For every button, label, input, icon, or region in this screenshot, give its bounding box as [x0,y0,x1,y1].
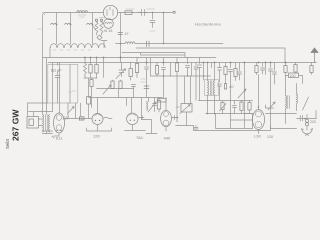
wire x118 [119,89,127,106]
pot arrow [103,85,111,94]
rail y113.5 right [245,114,297,124]
box 100 [289,73,299,78]
resistor R19 [285,63,287,66]
resistor R22 box [88,78,90,97]
resistor R17 box [120,80,122,81]
wire x230 [229,63,233,121]
node dot [285,62,287,64]
tube VA [92,114,103,125]
svg-text:Hochantenne: Hochantenne [195,22,222,27]
tube V4 oval [253,110,265,130]
label V1 [99,17,105,19]
node dot on line A [163,43,165,45]
wire x256 [256,63,258,66]
box R18 [157,101,160,110]
wire drop to line A [163,13,165,44]
svg-text:L30: L30 [254,134,261,139]
svg-text:784: 784 [136,135,143,140]
rail y113 [206,113,253,115]
wire y111 [29,112,53,117]
tube VB [127,113,138,124]
capacitor C20 [261,63,265,75]
wire x181 [176,121,179,123]
resistor hatch [63,117,69,120]
resistor R20 [295,63,297,65]
resistor R3 on top wire [125,11,132,15]
pot P2 box with arrow [185,76,191,104]
wire branch 2 [70,13,72,45]
under tube B [125,116,146,131]
node dot 1 [56,24,58,26]
capacitor C9 [145,58,149,77]
svg-text:40: 40 [229,84,234,89]
wire x50 [49,48,51,58]
wire x42.5 x46.5 [43,58,47,115]
svg-text:130: 130 [267,135,273,139]
ground anchor [302,129,313,136]
capacitor C10 [162,58,166,77]
resistor R13 [241,101,243,103]
resistor R14 [249,101,251,103]
label R3 value [126,8,155,10]
node dot 2 [70,24,72,26]
wire x150 [150,58,152,77]
label W [176,106,180,108]
svg-text:W 18: W 18 [104,29,112,33]
wire tick [93,27,96,30]
resistor R10 box [176,58,178,122]
wire stub C5 [150,13,155,28]
node dots rail [163,75,165,77]
wire x170 [170,63,172,77]
under tube A [87,125,112,132]
trimmer arrow [268,102,275,110]
svg-text:220: 220 [310,120,316,124]
speaker SP [27,117,39,129]
rail y97.5 [89,97,163,99]
brand label [5,109,21,149]
pot P1 [222,101,224,103]
wire bottom block [231,114,253,129]
antenna arrow [311,48,318,63]
junction dots bus D [85,57,121,59]
rail y118.5 right [297,63,317,119]
capacitor C18 [153,98,157,112]
box on rail [80,117,85,120]
wire x52 x59 [53,63,60,114]
resistor box R15 [91,78,93,80]
wire x133 [132,89,134,114]
coil right [297,84,298,111]
series cap on line A [147,41,150,47]
rail y128.5 [216,114,253,129]
rail y119 [142,120,158,134]
rail y88.5 [97,88,134,90]
resistor R6 box [96,58,98,79]
label [150,30,155,32]
hook right V3 [171,116,177,120]
capacitor C17 [132,85,136,89]
capacitor C6 [118,33,123,35]
capacitor C4 series [138,10,148,16]
wire in box [69,65,71,104]
trimmer arrow [238,89,246,98]
svg-text:100: 100 [290,74,296,78]
wire x207 down [208,101,215,114]
ground choke circles [305,119,308,122]
wire right end up [315,61,317,64]
tuning coil row [50,44,105,48]
coil row tick labels [53,49,91,51]
svg-text:47: 47 [125,32,129,36]
resistor R7 horizontal box [129,69,132,77]
hook right [103,117,112,118]
resistor R2 zigzag [100,21,103,35]
svg-text:E11: E11 [56,137,62,141]
rail y118.5 [64,118,85,120]
wires down from rail76 [147,76,164,98]
wire x80 [80,103,82,117]
resistor R4 [84,58,87,77]
wire x91 to tube A [92,91,98,114]
rail y128.5 right [271,126,297,129]
svg-text:267 GW: 267 GW [11,109,21,141]
pin circles [95,19,97,21]
trimmer C3 [87,23,93,24]
resistor R21 [311,63,313,66]
coil can W18 [104,19,114,29]
tick [69,91,77,92]
node dot 3 [92,24,94,26]
svg-text:120: 120 [93,134,100,139]
trimmer C1 [51,23,57,24]
junction dots bus E [147,62,286,64]
capacitor C7 in box [55,63,60,104]
wire x103 [103,58,105,78]
node dot [152,12,154,14]
condenser box frame [48,65,78,104]
IF transformer [142,98,149,120]
bus D y57.5 [43,57,217,59]
line B y48.5 [136,48,285,62]
wires x68 x75 [68,103,76,119]
rail y125.6 [176,125,194,127]
diagonal [303,97,309,110]
capacitor C16 tube A left [80,117,92,121]
antenna coil L1 [77,11,88,13]
capacitor C22 on rail [300,116,302,122]
choke on line A [125,42,135,44]
resistor R9 box [156,63,158,77]
resistor R1 zigzag [95,21,98,35]
capacitor C13 [198,58,202,101]
line A y43.5 [116,43,224,45]
wire y103 [28,103,48,116]
capacitor C14 [218,63,222,101]
wire x239.5 [238,63,242,81]
resistor R12 box [235,63,237,69]
resistor R16 box [112,80,114,81]
bottom rail [194,126,271,131]
trimmer arrow left [68,107,75,114]
wire top bus [43,13,174,104]
transformer T2 [205,80,219,96]
capacitor C15 [233,101,237,114]
resistor R8 box [136,58,138,78]
line C rect top [122,53,185,58]
svg-text:Seibt: Seibt [5,138,10,149]
coil row riser T [101,41,107,48]
bus E y62.5 [48,62,316,64]
label L1 value [78,15,86,17]
resistor R5 box [90,58,92,79]
output transformer T3 [43,115,44,133]
tube V5 oval [54,113,65,133]
rail y100 [199,100,253,102]
wire x120 [120,13,122,63]
wire [84,76,97,78]
choke with core [286,76,287,114]
node loop [97,35,102,40]
wire x265 [265,63,267,75]
wires right of V4 [266,105,274,108]
wires misc down from bus E [204,63,212,77]
node dot [163,12,165,14]
resistor R11 box 40 [225,63,227,67]
svg-text:440: 440 [164,136,171,141]
trimmer C2 [65,23,71,24]
capacitor C12 [194,63,198,101]
capacitor C21 [269,63,273,127]
box above V3 [158,99,167,103]
trimmer C8 with arrow [116,63,126,79]
wire x244 [244,63,246,129]
wire branch 3 [92,13,94,45]
tube V3 oval [161,110,172,126]
node dots [207,113,209,115]
rail y76 [151,75,211,77]
tube V1 [103,5,117,19]
wire branch 1 [56,13,58,45]
capacitor C19 [194,126,198,130]
wire x273 [273,63,277,85]
